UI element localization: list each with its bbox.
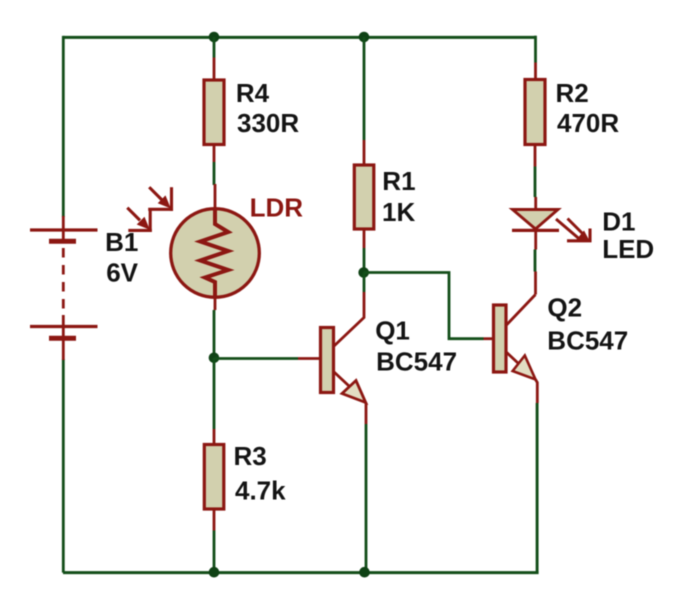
- wire left rail lower: [62, 359, 65, 573]
- svg-text:D1: D1: [602, 207, 635, 237]
- resistor R4: [204, 58, 224, 163]
- svg-text:Q1: Q1: [375, 315, 410, 345]
- junction bottom-left node: [209, 567, 220, 578]
- svg-text:6V: 6V: [106, 257, 138, 287]
- svg-text:R2: R2: [556, 78, 589, 108]
- wire R4 top: [213, 37, 216, 58]
- svg-text:BC547: BC547: [376, 346, 457, 376]
- wire R1 bottom: [363, 248, 366, 273]
- wire R3 to bottom rail: [213, 531, 216, 573]
- wire left rail upper: [62, 36, 65, 217]
- LDR light arrows: [127, 187, 173, 232]
- svg-text:R3: R3: [234, 441, 267, 471]
- wire bottom rail: [63, 571, 539, 574]
- wire R4 to LDR: [213, 162, 216, 185]
- battery B1: [30, 216, 98, 360]
- svg-text:1K: 1K: [382, 197, 415, 227]
- junction mid-left node: [209, 353, 220, 364]
- wire R2 to LED: [534, 167, 537, 198]
- wire LDR to node: [213, 310, 216, 359]
- wire top rail: [63, 36, 536, 39]
- wire node to Q2 base: [364, 273, 484, 339]
- svg-text:BC547: BC547: [547, 325, 628, 355]
- wire LED to Q2 collector: [534, 250, 537, 272]
- junction top-left node: [209, 32, 220, 43]
- wire R1 top: [363, 37, 366, 140]
- svg-text:Q2: Q2: [547, 292, 582, 322]
- junction mid node: [358, 267, 369, 278]
- transistor Q2: [484, 272, 538, 404]
- resistor R2: [525, 63, 545, 167]
- svg-text:LDR: LDR: [250, 192, 304, 222]
- svg-text:R4: R4: [236, 78, 270, 108]
- junction bottom-mid node: [359, 567, 370, 578]
- wire node to R3: [213, 358, 216, 429]
- LED D1: [512, 197, 559, 250]
- resistor R3: [204, 429, 224, 531]
- wire Q1 base: [214, 357, 298, 360]
- svg-text:4.7k: 4.7k: [235, 476, 286, 506]
- junction top-mid node: [359, 32, 370, 43]
- svg-text:R1: R1: [382, 166, 415, 196]
- wire Q2 emitter to bottom rail: [536, 403, 539, 573]
- svg-text:LED: LED: [602, 234, 654, 264]
- wire Q1 emitter to bottom rail: [365, 424, 368, 572]
- resistor R1: [354, 140, 374, 248]
- LDR: [171, 184, 260, 310]
- svg-text:330R: 330R: [237, 108, 299, 138]
- wire node to Q1 collector: [363, 273, 366, 293]
- transistor Q1: [298, 292, 366, 424]
- LED light arrows: [556, 219, 592, 243]
- svg-text:470R: 470R: [557, 108, 619, 138]
- wire top rail to R2: [534, 36, 537, 63]
